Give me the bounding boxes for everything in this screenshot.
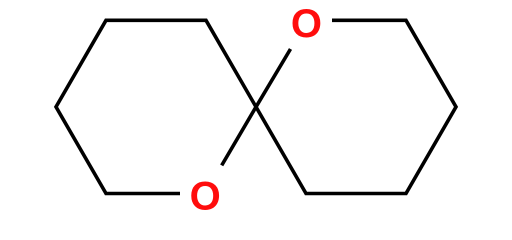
svg-text:O: O xyxy=(291,2,322,46)
svg-text:O: O xyxy=(190,175,221,215)
